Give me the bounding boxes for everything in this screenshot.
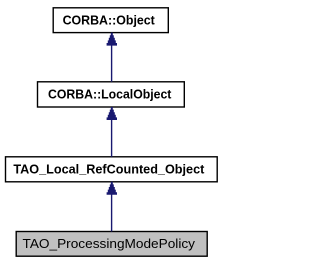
inheritance arrow: CORBA::LocalObject to CORBA::Object (shaft): [111, 45, 113, 82]
node TAO_Local_RefCounted_Object (class box): [6, 157, 218, 182]
svg-text:CORBA::LocalObject: CORBA::LocalObject: [48, 87, 172, 102]
node CORBA::Object (class box): [53, 8, 168, 33]
svg-text:CORBA::Object: CORBA::Object: [63, 13, 156, 28]
inheritance arrowhead at CORBA::Object: [107, 33, 117, 46]
node CORBA::LocalObject (class box): [38, 82, 185, 107]
node TAO_ProcessingModePolicy (highlighted class box): [16, 232, 207, 257]
inheritance arrow: TAO_Local_RefCounted_Object to CORBA::LocalObject (shaft): [111, 119, 113, 156]
inheritance arrow: TAO_ProcessingModePolicy to TAO_Local_RefCounted_Object (shaft): [111, 194, 113, 231]
svg-text:TAO_Local_RefCounted_Object: TAO_Local_RefCounted_Object: [13, 162, 205, 177]
svg-text:TAO_ProcessingModePolicy: TAO_ProcessingModePolicy: [23, 236, 196, 251]
inheritance arrowhead at CORBA::LocalObject: [107, 107, 117, 120]
inheritance arrowhead at TAO_Local_RefCounted_Object: [107, 182, 117, 195]
